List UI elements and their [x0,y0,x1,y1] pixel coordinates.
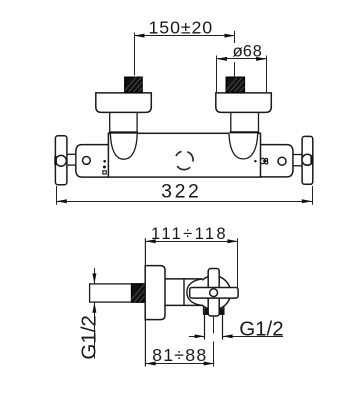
vertical pipe dimension line [94,268,96,284]
body (side) [165,279,203,305]
left neck [110,112,137,132]
dimension 81÷88 line [145,363,214,365]
svg-text:322: 322 [161,181,201,203]
handle disc [197,276,231,310]
left hub circle [56,155,67,166]
right neck [231,112,259,132]
arrow left 322 [56,199,67,203]
arrow right 81 [204,362,215,366]
right hub circle [302,154,313,165]
dimension 150±20 line [134,35,235,37]
body divider line [183,279,185,306]
svg-text:G1/2: G1/2 [78,315,101,359]
arrow left 150 [134,34,145,38]
extension line left (wall plane, shared) [144,238,146,366]
bonnet arc [187,279,203,306]
wall pipe hatched end [127,281,162,305]
broken circle on body [176,151,193,169]
svg-text:G1/2: G1/2 [239,317,283,340]
main body [108,133,260,177]
cross handle vertical spoke [208,269,219,317]
outlet stub lines [204,314,206,340]
extension line right 111 [237,238,239,288]
body dot right [254,160,256,162]
svg-text:81÷88: 81÷88 [152,345,207,365]
escutcheon (side) [145,266,165,320]
right supply block (hatched) [222,74,255,95]
arrow right 150 [225,34,236,38]
38 temperature label [261,158,267,164]
arrow left 81 [145,362,156,366]
extension line right ø68 [266,56,268,93]
arrow left ø68 [217,57,228,61]
left handle bar [55,136,67,185]
extension line right 322 [312,186,314,205]
dimension G1/2 right leader [189,336,205,338]
left wall flange [96,93,152,113]
extension line left 150 [134,33,136,76]
right end cap [260,145,293,177]
black wedge left [204,308,208,314]
arrow right ø68 [256,57,267,61]
wall pipe [90,284,146,302]
arrow right 111 [227,239,238,243]
extension line left ø68 [216,56,218,93]
body dots left [103,160,106,163]
cross handle horizontal spoke [190,288,238,299]
right hub black mark [310,156,313,165]
right stub [293,155,302,166]
left dome [110,134,137,160]
black wedge right [220,308,224,314]
outlet centerline [213,316,215,334]
left stub [67,154,76,165]
handle hub [210,289,218,297]
right dome [229,133,258,159]
extension line right 150 (broken around ø68 text) [234,31,236,43]
arrow right 322 [302,199,313,203]
arrow left 111 [145,239,156,243]
left nut line [109,131,138,133]
dimension ø68 line [217,58,267,60]
dimension 322 line [56,201,312,203]
dimension 111÷118 line [145,241,238,243]
left cap circle [83,157,91,165]
right cap circle [278,157,286,165]
extension line left 322 [56,186,58,205]
svg-text:150±20: 150±20 [148,17,213,37]
left hub black mark [54,156,57,165]
left end cap [76,145,109,178]
right wall flange [216,93,271,113]
outlet collar [204,304,224,314]
right nut line [230,131,259,133]
left supply block (hatched) [121,74,154,95]
right handle bar [302,136,313,184]
svg-text:111÷118: 111÷118 [151,224,228,243]
